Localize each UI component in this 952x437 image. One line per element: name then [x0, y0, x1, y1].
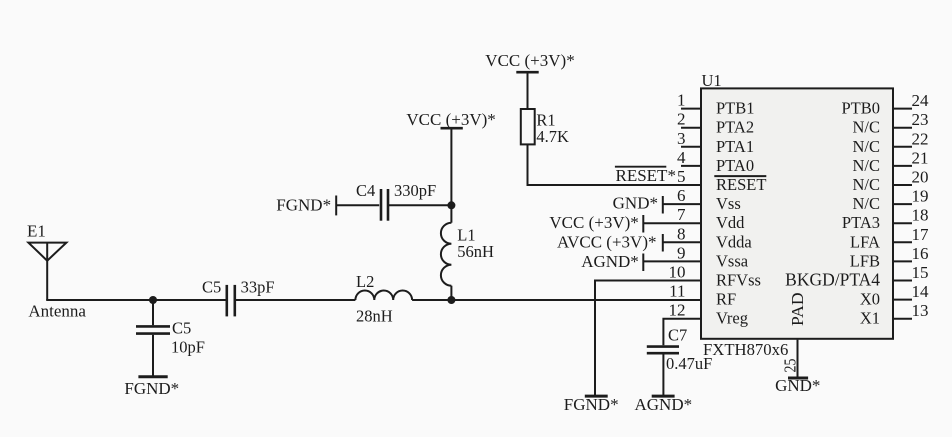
node junction dot (C4 / L1 / VCC) [447, 201, 455, 209]
svg-text:AGND*: AGND* [581, 252, 639, 271]
svg-text:Vdd: Vdd [716, 213, 745, 232]
svg-text:14: 14 [912, 282, 930, 301]
wire L2 to U1 pin 11 (RF) [412, 299, 702, 301]
svg-text:6: 6 [677, 186, 686, 205]
pin 16 stub [892, 260, 912, 262]
pin 25 stub [797, 340, 799, 378]
svg-text:X1: X1 [860, 309, 880, 328]
svg-text:N/C: N/C [852, 118, 880, 137]
svg-text:VCC (+3V)*: VCC (+3V)* [406, 110, 495, 129]
svg-text:PTB1: PTB1 [716, 99, 755, 118]
svg-text:Antenna: Antenna [28, 302, 86, 321]
net label RESET* (overline) [615, 166, 666, 168]
wire U1 pin 10 (RFVss) to FGND [595, 281, 702, 397]
svg-text:3: 3 [677, 129, 686, 148]
svg-text:FGND*: FGND* [276, 196, 331, 215]
svg-text:LFB: LFB [850, 251, 880, 270]
svg-text:16: 16 [912, 244, 929, 263]
pin 19 stub [892, 203, 912, 205]
pin 4 stub [681, 165, 702, 167]
capacitor C5 (33pF series) [227, 285, 235, 317]
capacitor C7 [647, 347, 679, 354]
pin 17 stub [892, 241, 912, 243]
svg-text:4.7K: 4.7K [536, 127, 569, 146]
svg-text:330pF: 330pF [394, 181, 436, 200]
svg-text:15: 15 [912, 263, 929, 282]
node junction dot (antenna / C5 shunt) [149, 296, 157, 304]
svg-text:11: 11 [669, 282, 685, 301]
wire C7 to AGND [662, 354, 664, 396]
pin 18 stub [892, 222, 912, 224]
resistor R1 [521, 109, 535, 144]
svg-text:N/C: N/C [852, 175, 880, 194]
svg-text:19: 19 [912, 187, 929, 206]
svg-text:C7: C7 [668, 326, 687, 345]
svg-text:RESET*: RESET* [616, 166, 676, 185]
capacitor C4 [381, 189, 388, 221]
svg-text:LFA: LFA [850, 232, 880, 251]
svg-text:PAD: PAD [788, 292, 807, 326]
svg-text:22: 22 [912, 129, 929, 148]
ground FGND* (pin 10) [585, 395, 608, 398]
svg-text:20: 20 [912, 168, 929, 187]
svg-text:U1: U1 [702, 71, 722, 90]
svg-text:8: 8 [677, 224, 686, 243]
svg-text:RESET: RESET [716, 175, 766, 194]
net label AGND* tick (pin 9) [642, 254, 644, 272]
wire C5 right plate to L2 [235, 299, 355, 301]
svg-text:Vss: Vss [716, 194, 741, 213]
svg-text:23: 23 [912, 110, 929, 129]
svg-text:N/C: N/C [852, 156, 880, 175]
svg-text:24: 24 [912, 91, 930, 110]
svg-text:C5: C5 [172, 319, 191, 338]
svg-text:28nH: 28nH [356, 307, 393, 326]
svg-text:10: 10 [669, 263, 686, 282]
wire U1 pin 12 (Vreg) to C7 [663, 319, 702, 346]
svg-text:N/C: N/C [852, 137, 880, 156]
svg-text:PTA0: PTA0 [716, 156, 754, 175]
svg-text:21: 21 [912, 148, 929, 167]
svg-text:PTB0: PTB0 [841, 99, 880, 118]
pin 1 stub [681, 108, 702, 110]
node junction dot (L1 / L2 / RF) [447, 296, 455, 304]
svg-text:RF: RF [716, 290, 736, 309]
svg-text:L2: L2 [356, 272, 374, 291]
capacitor C5 (10pF shunt) [136, 300, 170, 377]
pin 14 stub [892, 299, 912, 301]
pin 15 stub [892, 280, 912, 282]
wire VCC to pin 7 [643, 222, 702, 224]
wire GND* to pin 6 [663, 203, 702, 205]
net label VCC (+3V)* tick (pin 7) [642, 215, 644, 233]
svg-text:X0: X0 [860, 290, 880, 309]
inductor L1 [441, 205, 452, 301]
pin 22 stub [892, 146, 912, 148]
pin 20 stub [892, 184, 912, 186]
svg-text:PTA3: PTA3 [842, 213, 880, 232]
pin 21 stub [892, 165, 912, 167]
svg-text:13: 13 [912, 301, 929, 320]
svg-text:9: 9 [677, 243, 686, 262]
wire antenna to C5 series left plate [46, 299, 226, 301]
svg-text:7: 7 [677, 205, 686, 224]
op-amp/IC U1 body [701, 88, 893, 338]
power VCC (+3V)* (R1 feed) [516, 71, 538, 74]
power VCC (+3V)* (L1 feed) [441, 127, 463, 130]
svg-text:2: 2 [677, 110, 686, 129]
svg-text:56nH: 56nH [457, 242, 494, 261]
svg-text:VCC (+3V)*: VCC (+3V)* [549, 213, 638, 232]
svg-text:RFVss: RFVss [716, 271, 761, 290]
terminal tick FGND* (C4) [335, 196, 337, 216]
svg-text:N/C: N/C [852, 194, 880, 213]
net label GND* tick (pin 6) [662, 196, 664, 214]
svg-text:25: 25 [781, 358, 800, 372]
svg-text:12: 12 [669, 301, 686, 320]
antenna E1 [28, 243, 66, 300]
svg-text:18: 18 [912, 206, 929, 225]
wire C4 to node [389, 204, 451, 206]
svg-text:GND*: GND* [613, 194, 658, 213]
pin 3 stub [681, 146, 702, 148]
net label AVCC (+3V)* tick (pin 8) [662, 234, 664, 252]
svg-text:10pF: 10pF [171, 338, 205, 357]
pin 2 stub [681, 127, 702, 129]
pin 24 stub [892, 108, 912, 110]
svg-text:FGND*: FGND* [564, 395, 619, 414]
svg-text:33pF: 33pF [241, 278, 275, 297]
wire R1 to U1 pin 5 [528, 144, 703, 185]
wire AGND to pin 9 [643, 260, 702, 262]
wire FGND tick to C4 [336, 204, 379, 206]
svg-text:FXTH870x6: FXTH870x6 [703, 340, 788, 359]
wire AVCC to pin 8 [663, 241, 702, 243]
svg-text:Vreg: Vreg [716, 309, 748, 328]
svg-text:1: 1 [677, 91, 686, 110]
svg-text:17: 17 [912, 225, 930, 244]
svg-text:4: 4 [677, 148, 686, 167]
svg-text:Vdda: Vdda [716, 232, 752, 251]
ground FGND* (antenna shunt) [138, 375, 167, 378]
svg-text:VCC (+3V)*: VCC (+3V)* [485, 51, 574, 70]
svg-text:E1: E1 [27, 222, 46, 241]
svg-text:PTA1: PTA1 [716, 137, 754, 156]
pin 13 stub [892, 318, 912, 320]
svg-text:GND*: GND* [775, 376, 820, 395]
overline for RESET pin name [714, 175, 766, 177]
wire VCC to R1 [527, 72, 529, 109]
svg-text:AVCC (+3V)*: AVCC (+3V)* [557, 233, 656, 252]
svg-text:AGND*: AGND* [635, 395, 693, 414]
svg-text:5: 5 [677, 167, 686, 186]
svg-text:Vssa: Vssa [716, 251, 749, 270]
ground GND* (pin 25 pad) [788, 377, 808, 380]
ground AGND* (C7) [652, 395, 675, 398]
svg-text:FGND*: FGND* [124, 379, 179, 398]
svg-text:BKGD/PTA4: BKGD/PTA4 [785, 270, 880, 290]
svg-text:C5: C5 [202, 278, 221, 297]
svg-text:PTA2: PTA2 [716, 118, 754, 137]
pin 23 stub [892, 127, 912, 129]
inductor L2 [355, 291, 412, 300]
wire L1 node up to VCC [450, 128, 452, 205]
svg-text:C4: C4 [356, 181, 375, 200]
svg-text:0.47uF: 0.47uF [666, 354, 712, 373]
